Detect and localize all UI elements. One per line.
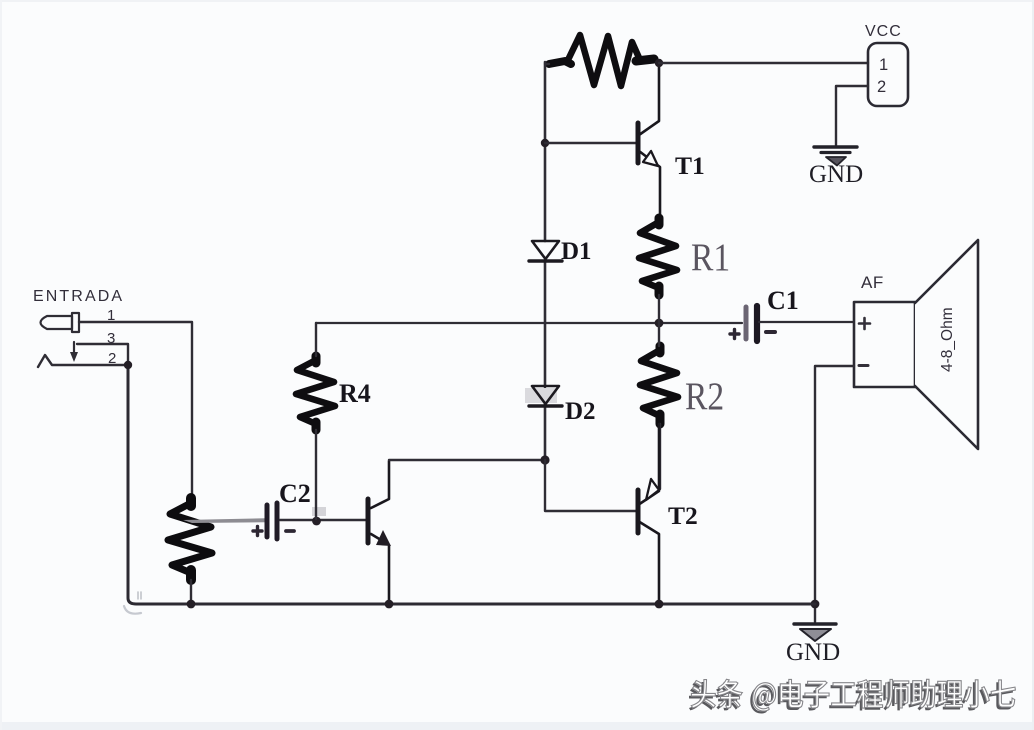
connector J2 VCC [868,43,908,106]
potentiometer RV1 (vertical, hand-drawn) [168,498,212,580]
wire: C1 to speaker [759,321,854,323]
resistor R4 (vertical, hand-drawn) [296,356,335,430]
wire: resistor left to vertical bus [545,63,549,65]
diode D2 [525,388,557,403]
node: pin2/pin3 junction [124,361,132,369]
pin 2 squiggle and wire [38,355,128,367]
corner smudge artifact [124,606,141,614]
node: T2 emitter ground junction [655,600,664,609]
node: Q1 emitter ground junction [385,600,394,609]
wire: vertical bus x=545 from top resistor to D1 [544,62,547,241]
ground (bottom right) [794,624,836,641]
wire: node down and to T2 base [545,460,636,511]
watermark 头条 @电子工程师助理小七 [689,679,1016,713]
svg-text:C1: C1 [767,286,799,315]
node: ground rail right end [811,600,820,609]
svg-text:VCC: VCC [865,23,902,40]
wire: R1 bottom to node [658,295,660,323]
wire: speaker minus to ground [815,366,854,622]
wire: pin 3 bracket [77,344,128,364]
svg-text:T1: T1 [675,151,705,180]
jack plug tip (pin 1) [41,316,73,329]
svg-text:AF: AF [861,273,884,292]
wire: R4 bottom to base node [315,430,317,519]
resistor (top, unlabeled, hand-drawn) [549,35,654,86]
wire: vertical bus D2 to collector junction [544,404,547,460]
capacitor C2 [267,503,277,539]
switch arrow (jack) [73,342,75,353]
transistor T2 [638,424,659,604]
svg-text:D2: D2 [565,398,596,425]
node: output junction R1/R2 [655,319,664,328]
wire: pin 1 to pot top [79,322,192,498]
wire: pin2 to ground [836,86,868,146]
wire: T1 base [545,142,636,144]
svg-text:GND: GND [786,639,840,666]
diode D1 [532,241,559,259]
node: pot ground junction [187,600,196,609]
transistor T1 [638,64,660,219]
capacitor C1 [746,306,757,341]
svg-text:T2: T2 [668,501,698,530]
svg-text:D1: D1 [561,238,592,265]
wire: C2 to Q1 base [280,519,366,521]
node: T1 base junction [541,139,549,147]
svg-text:R2: R2 [685,375,724,418]
svg-text:GND: GND [809,161,863,188]
svg-text:R1: R1 [691,236,730,279]
node: collector/D2 junction [540,455,549,464]
ground (top right, below VCC) [814,147,857,166]
svg-text:ENTRADA: ENTRADA [33,288,124,305]
wire: Q1 collector to D2 node [389,459,545,461]
svg-text:1: 1 [879,56,888,74]
wire: mid rail (R4 top to C1) [316,322,742,324]
svg-text:4-8_Ohm: 4-8_Ohm [939,307,956,372]
junction smudge R4/C2 [312,507,326,516]
node: VCC rail junction [655,59,663,67]
wire: pot bottom to rail [190,580,192,604]
resistor R2 (vertical, hand-drawn) [640,346,678,424]
pot wiper [183,518,266,523]
svg-text:C2: C2 [279,479,311,508]
wire: node to VCC connector [659,62,868,64]
resistor R1 (vertical, hand-drawn) [639,218,677,295]
wire: vertical bus between D1 and D2 [544,261,547,387]
wire: node to R2 top [658,323,660,346]
transistor Q1 (driver) [368,461,391,604]
wire: R2 bottom to T2 [659,424,661,489]
svg-text:R4: R4 [339,379,371,408]
ground rail (bottom) [128,367,815,604]
wire: mid rail to R4 top [315,323,317,356]
svg-text:2: 2 [877,78,886,96]
